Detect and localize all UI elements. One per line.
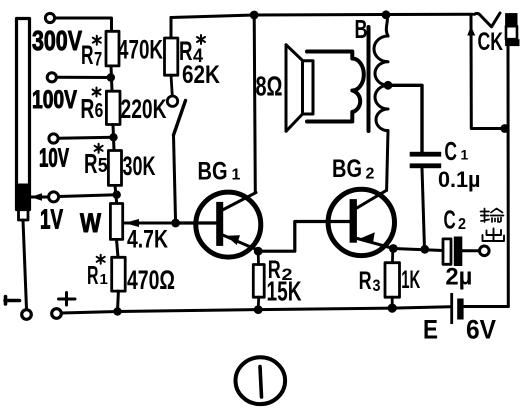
wire switch to base node [174, 135, 176, 223]
svg-text:2: 2 [366, 166, 375, 183]
resistor R1 [112, 257, 126, 291]
svg-text:2µ: 2µ [445, 264, 472, 291]
wire probe to minus terminal [23, 220, 27, 309]
svg-text:7: 7 [94, 50, 102, 71]
svg-text:300V: 300V [32, 25, 82, 56]
svg-text:10V: 10V [39, 143, 69, 173]
svg-text:BG: BG [332, 155, 362, 183]
terminal 300V [45, 13, 54, 22]
resistor R5 [108, 151, 121, 186]
svg-text:R: R [80, 93, 94, 124]
minus sign [5, 297, 20, 305]
svg-text:R: R [87, 260, 99, 290]
plus terminal [52, 309, 62, 319]
label R2 [268, 256, 293, 284]
wire BG2 collector to transformer [387, 131, 388, 191]
wiper arrow of W [124, 222, 176, 225]
node R1/bottom [113, 307, 121, 315]
label R3 [359, 267, 381, 295]
svg-text:62K: 62K [182, 61, 220, 89]
node C1/C2 junction [420, 245, 429, 254]
svg-text:1K: 1K [401, 266, 420, 294]
terminal 1V with arrow to probe [49, 192, 59, 202]
transistor BG1 [176, 192, 261, 257]
label R7* [81, 40, 102, 71]
svg-text:470K: 470K [118, 35, 163, 65]
svg-text:R: R [81, 40, 94, 70]
svg-text:1: 1 [100, 271, 108, 288]
node BG2 emitter [389, 244, 398, 253]
node secondary tap [384, 81, 393, 90]
svg-text:R: R [84, 148, 98, 179]
speaker box with primary winding bumps [307, 52, 364, 122]
svg-text:B: B [355, 14, 368, 44]
battery E 6V [450, 293, 463, 324]
resistor R2 [253, 265, 264, 298]
wire R6 to R5 [113, 125, 114, 151]
label R5* [84, 148, 108, 179]
transformer secondary winding [374, 36, 388, 131]
svg-text:BG: BG [198, 158, 228, 186]
wire tap to C1 [388, 85, 422, 152]
node R6/R5/10V [109, 133, 117, 141]
svg-text:1: 1 [232, 167, 241, 184]
label C1 [444, 136, 468, 166]
wire battery to right rail [464, 305, 509, 308]
minus terminal [22, 310, 32, 320]
node right rail [500, 124, 509, 133]
resistor R6 [106, 91, 120, 124]
label C2 [444, 205, 467, 235]
top wire [171, 14, 473, 17]
plus sign [59, 293, 76, 306]
speaker driver [303, 61, 314, 114]
label R4* [179, 36, 203, 67]
svg-text:6V: 6V [466, 315, 496, 345]
jack hook V [475, 13, 501, 27]
svg-text:6: 6 [95, 100, 104, 122]
wire R2 to bottom [257, 297, 260, 309]
bottom wire (common rail) [62, 307, 451, 313]
wire 300V to R7 [55, 18, 112, 31]
svg-text:470Ω: 470Ω [127, 265, 175, 295]
node R2/bottom [254, 305, 263, 314]
right rail wire [507, 46, 510, 307]
svg-text:3: 3 [373, 276, 381, 295]
potentiometer W [110, 204, 122, 240]
wire BG2 emitter to C2 [393, 249, 443, 251]
svg-text:8Ω: 8Ω [256, 71, 283, 102]
svg-text:30K: 30K [123, 151, 156, 181]
svg-text:220K: 220K [121, 94, 167, 124]
svg-text:15K: 15K [267, 276, 302, 307]
wire R5 to W [115, 185, 117, 203]
svg-text:4.7K: 4.7K [127, 226, 168, 254]
capacitor C2 [443, 237, 462, 267]
output terminal [480, 246, 490, 256]
figure number circle 1 [235, 357, 285, 404]
label R1* [87, 260, 108, 290]
plug symbol [505, 13, 519, 46]
svg-text:100V: 100V [32, 86, 77, 114]
label output (Chinese shu) [481, 209, 504, 223]
speaker horn [286, 45, 304, 132]
wire secondary top to top wire [386, 15, 388, 37]
arrow on CK wire [467, 26, 475, 36]
node BG1 emitter [254, 247, 263, 256]
switch contact circle [167, 96, 177, 106]
wire R7 to R6 [111, 66, 112, 91]
svg-text:5: 5 [98, 155, 108, 177]
wire BG1 emitter to BG2 base [258, 222, 349, 252]
wire 100V [57, 76, 111, 79]
svg-text:CK: CK [478, 28, 504, 56]
node R3/bottom [388, 304, 397, 313]
wire C1 to output node [422, 168, 425, 249]
wire R4 to switch [171, 75, 172, 96]
resistor R7 [106, 31, 119, 66]
svg-text:R: R [359, 267, 372, 295]
svg-text:C: C [444, 205, 456, 235]
wire BG1 collector to top [254, 15, 255, 193]
wire R3 to bottom [391, 297, 394, 308]
node W-wiper/switch/base [171, 219, 180, 228]
transformer core [367, 27, 371, 131]
transistor BG2 [328, 189, 394, 255]
capacitor C1 [410, 152, 442, 168]
svg-text:1V: 1V [40, 204, 63, 235]
wire 10V [58, 137, 113, 138]
label BG2 [332, 155, 375, 183]
label output (Chinese chu) [483, 229, 505, 242]
terminal 100V [47, 73, 56, 82]
label R6* [80, 93, 103, 124]
node collector/top wire [250, 11, 259, 20]
node R7/R6/100V [107, 73, 115, 81]
svg-text:W: W [80, 208, 101, 238]
CK jack wire from top [471, 16, 505, 129]
probe bar (test electrode) [17, 19, 30, 221]
wire 1V to node [59, 195, 117, 197]
wire W to R1 [117, 239, 119, 257]
svg-text:E: E [423, 315, 438, 345]
wire emitter to R2 [257, 251, 260, 264]
node R5/W/1V [113, 191, 121, 199]
terminal 10V [49, 134, 58, 143]
wire C2 to output terminal [462, 249, 479, 252]
node secondary/top wire [382, 10, 391, 19]
resistor R3 [385, 263, 400, 298]
resistor R4 [165, 38, 178, 75]
wire top to R4 [170, 18, 173, 39]
wire R1 to bottom rail [116, 291, 120, 311]
svg-text:0.1µ: 0.1µ [438, 167, 481, 192]
svg-text:1: 1 [461, 147, 469, 163]
label BG1 [198, 158, 241, 186]
svg-text:2: 2 [458, 216, 466, 233]
wire emitter to R3 [391, 250, 394, 263]
svg-text:C: C [444, 136, 457, 166]
switch blade [174, 101, 186, 136]
